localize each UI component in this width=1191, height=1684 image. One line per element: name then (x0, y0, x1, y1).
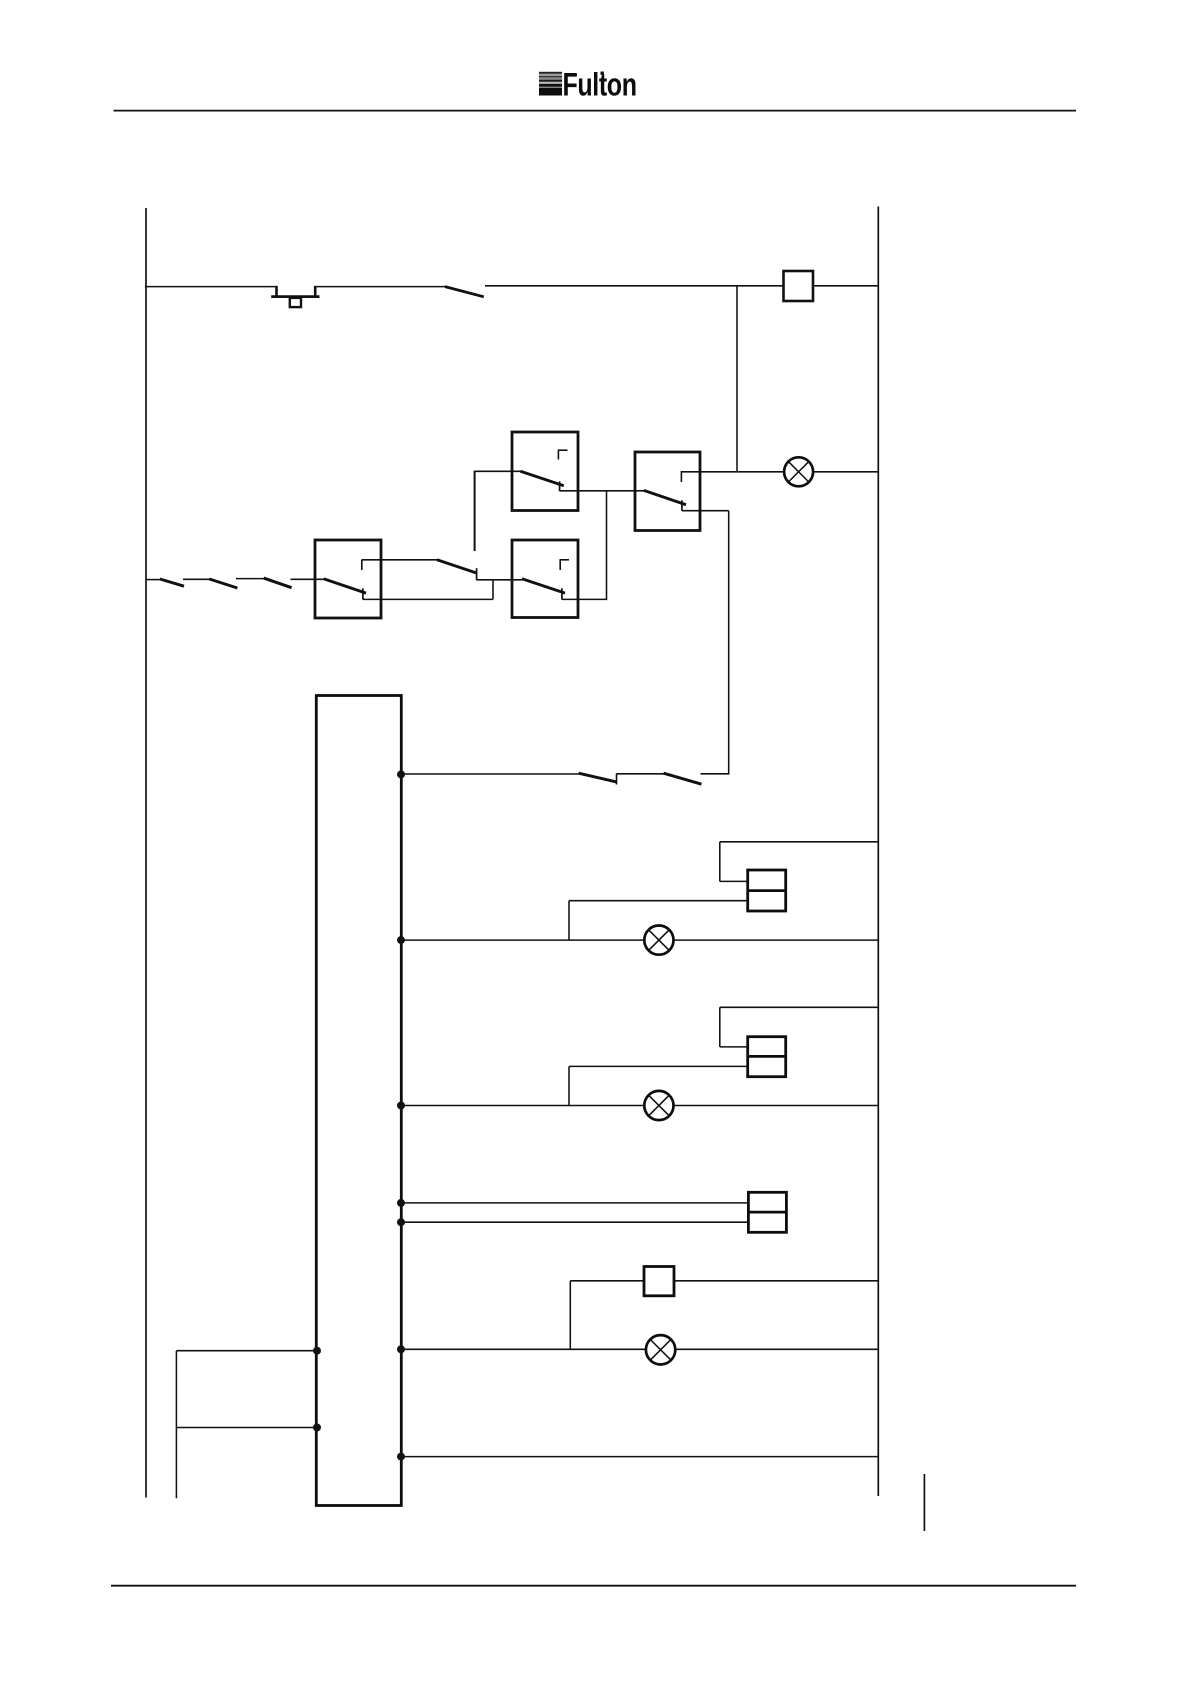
wire blade 2 to relay D (477, 579, 523, 581)
wire relay C contact to blade 2 (362, 559, 438, 561)
wire probe to switch (315, 286, 445, 288)
wire rung1 (401, 773, 579, 775)
relay A fixed contact mark (558, 450, 568, 460)
relay D fixed contact mark (560, 559, 569, 570)
heater branch 2 bottom wire (569, 1066, 748, 1105)
node rung1 (397, 770, 405, 778)
wire rung5 right (675, 1348, 878, 1350)
lamp PL3 (644, 1091, 673, 1120)
wire relay B to lamp PL1 (681, 471, 784, 473)
wire square to L2 (674, 1280, 878, 1282)
fuse box F1 (784, 271, 814, 301)
control square K1 (644, 1267, 674, 1296)
switch blade S1 (445, 287, 484, 297)
node rung6 (397, 1453, 405, 1461)
vertical wire relay A input down (474, 471, 476, 551)
heater coil H3 (748, 1192, 786, 1232)
relay C blade (324, 579, 366, 600)
interposing blade 2 (437, 560, 477, 580)
relay B blade (644, 490, 686, 511)
node rung3 (397, 1102, 405, 1110)
wire rung2 right (673, 939, 878, 941)
lamp PL1 (784, 457, 813, 486)
relay A blade (521, 471, 564, 491)
wire relay A output to relay B (560, 490, 645, 492)
rung1 switch blade a (579, 773, 617, 784)
wire lamp PL1 to L2 (813, 471, 878, 473)
footer rule (111, 1585, 1076, 1587)
header rule (114, 110, 1077, 112)
wire rung1 mid (617, 773, 665, 775)
relay box A (top middle) (512, 432, 578, 511)
wire rung6 (401, 1456, 878, 1458)
heater branch 1 bottom wire (569, 901, 748, 940)
node rung2 (397, 936, 405, 944)
wire fuse to L2 (813, 285, 878, 287)
node left loop bottom (313, 1424, 321, 1432)
vertical wire relay B to rung 1 (728, 511, 730, 775)
wire relay D output (562, 598, 607, 600)
heater coil H1 (748, 870, 786, 911)
wire rung4b (401, 1221, 749, 1223)
relay box D (middle bottom) (512, 540, 578, 618)
right power rail L2 (877, 207, 879, 1497)
node rung4b (397, 1218, 405, 1226)
wire rung5 left (401, 1348, 647, 1350)
stray mark (923, 1474, 925, 1531)
branch to control square (570, 1281, 644, 1350)
lamp PL4 (646, 1335, 675, 1364)
heater branch 1 top wire (720, 842, 879, 882)
wire rung4a (401, 1202, 749, 1204)
wire switch to fuse box (485, 285, 784, 287)
heater branch 2 top wire (720, 1007, 879, 1047)
lamp PL2 (644, 926, 673, 955)
wire rung3 left (401, 1105, 645, 1107)
relay box B (top right) (635, 452, 700, 531)
relay B fixed contact mark (680, 471, 682, 482)
low water cutoff probe (271, 286, 319, 307)
relay box C (left) (315, 540, 381, 618)
rung1 switch blade b (664, 773, 702, 784)
operating limit chain (dashes) (146, 578, 324, 588)
left loop wires (176, 1351, 317, 1499)
relay C fixed contact mark (361, 560, 363, 571)
svg-text:Fulton: Fulton (563, 68, 637, 104)
vertical wire to lamp line (736, 286, 738, 472)
wire rung1 right (701, 773, 730, 775)
node left loop top (313, 1347, 321, 1355)
terminal block (tall rectangle) (316, 696, 401, 1506)
wire rung3 right (673, 1105, 878, 1107)
heater coil H2 (748, 1037, 786, 1077)
wire rung2 left (401, 939, 645, 941)
relay D blade (522, 579, 565, 600)
wire into relay A (475, 470, 522, 472)
wire L1 to probe (145, 286, 277, 288)
vertical wire node to relay D output (606, 491, 608, 600)
Fulton logo (539, 68, 637, 104)
node rung5 right (397, 1345, 405, 1353)
node rung4a (397, 1199, 405, 1207)
wire relay C output (363, 580, 493, 600)
left power rail L1 (145, 208, 147, 1498)
wire relay B output (682, 510, 729, 512)
